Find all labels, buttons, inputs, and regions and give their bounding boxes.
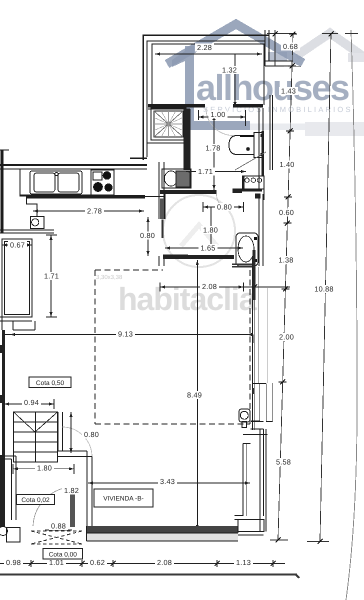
svg-text:2.08: 2.08 — [157, 558, 172, 567]
svg-text:Cota 0,02: Cota 0,02 — [21, 497, 50, 504]
svg-text:2.00: 2.00 — [279, 333, 294, 342]
svg-text:1.78: 1.78 — [205, 144, 220, 153]
svg-text:0.68: 0.68 — [283, 42, 298, 51]
svg-text:1.32: 1.32 — [222, 66, 237, 75]
svg-text:10.88: 10.88 — [314, 285, 333, 294]
svg-text:0.88: 0.88 — [51, 522, 66, 531]
svg-text:1.00: 1.00 — [210, 110, 225, 119]
svg-text:5.58: 5.58 — [276, 458, 291, 467]
svg-text:1.71: 1.71 — [198, 167, 213, 176]
svg-text:0.80: 0.80 — [217, 202, 232, 211]
svg-text:Cota 0,00: Cota 0,00 — [49, 551, 78, 558]
svg-text:3.43: 3.43 — [160, 477, 175, 486]
svg-text:1.80: 1.80 — [37, 464, 52, 473]
svg-text:1.80: 1.80 — [203, 226, 218, 235]
svg-text:2.28: 2.28 — [197, 43, 212, 52]
svg-text:8.49: 8.49 — [187, 391, 202, 400]
svg-text:0.80: 0.80 — [140, 231, 155, 240]
svg-text:0.60: 0.60 — [279, 208, 294, 217]
svg-text:0.80: 0.80 — [84, 430, 99, 439]
svg-text:1.82: 1.82 — [64, 486, 79, 495]
svg-text:habitaclia: habitaclia — [118, 281, 257, 317]
svg-text:1.40: 1.40 — [279, 160, 294, 169]
svg-text:1.13: 1.13 — [236, 558, 251, 567]
svg-text:1.43: 1.43 — [281, 87, 296, 96]
svg-text:3,30x3,38: 3,30x3,38 — [96, 274, 123, 281]
svg-text:0.94: 0.94 — [24, 398, 39, 407]
svg-text:VIVIENDA -B-: VIVIENDA -B- — [103, 496, 143, 503]
svg-text:2.78: 2.78 — [87, 207, 102, 216]
svg-text:2.08: 2.08 — [202, 282, 217, 291]
svg-text:1.71: 1.71 — [44, 272, 59, 281]
svg-text:1.38: 1.38 — [278, 256, 293, 265]
svg-text:0.67: 0.67 — [10, 241, 25, 250]
svg-text:9.13: 9.13 — [118, 330, 133, 339]
svg-text:1.65: 1.65 — [200, 243, 215, 252]
svg-text:0.98: 0.98 — [6, 558, 21, 567]
svg-text:0.62: 0.62 — [90, 558, 105, 567]
svg-text:Cota 0,50: Cota 0,50 — [36, 380, 65, 387]
